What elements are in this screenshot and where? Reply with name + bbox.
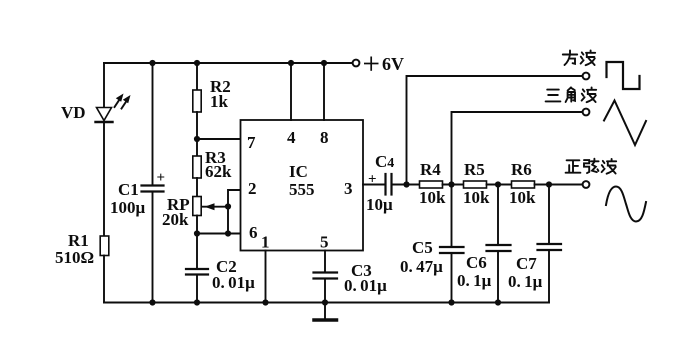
svg-text:10k: 10k bbox=[509, 188, 536, 207]
node top pin4 bbox=[288, 60, 294, 66]
wire left rail lower bbox=[103, 256, 105, 303]
svg-text:0. 01μ: 0. 01μ bbox=[344, 276, 387, 295]
svg-text:C1: C1 bbox=[118, 180, 139, 199]
capacitor C1 bbox=[142, 184, 164, 186]
resistor R6 bbox=[512, 181, 535, 188]
wire C4 to R4 bbox=[392, 184, 420, 186]
wire pin3 bbox=[363, 184, 386, 186]
node wiper bbox=[225, 203, 231, 209]
capacitor C3 bbox=[314, 271, 338, 273]
wire R5 to R6 bbox=[487, 184, 512, 186]
wire R3 to RP bbox=[196, 178, 198, 197]
resistor R4 bbox=[420, 181, 443, 188]
resistor R5 bbox=[464, 181, 487, 188]
op-amp U1 IC 555 box bbox=[241, 120, 364, 251]
node bottom C2 bbox=[194, 299, 200, 305]
wire C1 rail upper bbox=[152, 63, 154, 185]
svg-text:R6: R6 bbox=[511, 160, 532, 179]
resistor R2 bbox=[193, 90, 201, 112]
svg-text:6: 6 bbox=[249, 223, 258, 242]
wire R4 to R5 bbox=[443, 184, 464, 186]
svg-text:0. 01μ: 0. 01μ bbox=[212, 273, 255, 292]
node bottom C6 bbox=[495, 299, 501, 305]
capacitor C2 bbox=[186, 268, 208, 270]
svg-text:1: 1 bbox=[261, 233, 270, 252]
node R6 out bbox=[546, 181, 552, 187]
svg-text:IC: IC bbox=[289, 162, 308, 181]
svg-text:R5: R5 bbox=[464, 160, 485, 179]
svg-text:C4: C4 bbox=[375, 152, 394, 171]
wire R2 to node7 bbox=[196, 112, 198, 156]
label zheng-xian-bo (sine wave, chinese) bbox=[566, 160, 581, 172]
node pin6 bus bbox=[225, 230, 231, 236]
terminal +6V bbox=[353, 60, 360, 67]
potentiometer RP bbox=[193, 197, 201, 216]
wire pin6 bbox=[197, 233, 241, 235]
label fang-bo (square wave, chinese) bbox=[563, 51, 577, 66]
ground bbox=[314, 303, 337, 321]
svg-text:4: 4 bbox=[287, 128, 296, 147]
svg-text:510Ω: 510Ω bbox=[55, 248, 94, 267]
icon sine wave bbox=[606, 187, 646, 222]
wire triangle-wave takeoff bbox=[452, 112, 583, 185]
terminal triangle-wave bbox=[583, 109, 590, 116]
node R4-R5 bbox=[448, 181, 454, 187]
svg-text:7: 7 bbox=[247, 133, 256, 152]
wire RP to pin6 bbox=[196, 216, 198, 270]
wire R6 to sine terminal bbox=[535, 184, 583, 186]
node pin7 bbox=[194, 136, 200, 142]
node bottom pin1 bbox=[262, 299, 268, 305]
wire C1 rail lower bbox=[152, 192, 154, 303]
wire pin1 bbox=[265, 251, 267, 303]
svg-text:8: 8 bbox=[320, 128, 329, 147]
node R5-R6 bbox=[495, 181, 501, 187]
resistor R1 bbox=[100, 236, 109, 256]
svg-text:0. 47μ: 0. 47μ bbox=[400, 257, 443, 276]
svg-text:1k: 1k bbox=[210, 92, 229, 111]
wire top supply rail bbox=[104, 62, 353, 64]
svg-text:555: 555 bbox=[289, 180, 315, 199]
svg-text:+: + bbox=[157, 170, 166, 186]
wire C2 to rail bbox=[196, 275, 198, 303]
capacitor C5 bbox=[440, 185, 464, 303]
node top C1 bbox=[149, 60, 155, 66]
wire wiper bus bbox=[228, 190, 241, 234]
wire pin7 bbox=[197, 138, 241, 140]
label san-jiao-bo (triangle wave, chinese) bbox=[546, 90, 561, 102]
label +6V bbox=[364, 57, 379, 71]
svg-text:0. 1μ: 0. 1μ bbox=[508, 272, 543, 291]
photodiode VD bbox=[96, 94, 131, 123]
capacitor C6 bbox=[487, 185, 511, 303]
wire C3 to rail bbox=[324, 279, 326, 303]
wire R2 rail top bbox=[196, 63, 198, 90]
terminal square-wave bbox=[583, 73, 590, 80]
wire square-wave takeoff bbox=[407, 76, 583, 185]
wire pin5 bbox=[324, 251, 326, 273]
capacitor C4 bbox=[384, 174, 386, 195]
wire bottom ground rail bbox=[104, 302, 549, 304]
resistor R3 bbox=[193, 156, 201, 178]
svg-text:R4: R4 bbox=[420, 160, 441, 179]
svg-text:2: 2 bbox=[248, 179, 257, 198]
node top R2 bbox=[194, 60, 200, 66]
node bottom C1 bbox=[149, 299, 155, 305]
svg-text:6V: 6V bbox=[382, 54, 404, 74]
node pin6 left bbox=[194, 230, 200, 236]
capacitor C7 bbox=[538, 185, 562, 303]
wire left rail upper bbox=[103, 63, 105, 107]
svg-text:0. 1μ: 0. 1μ bbox=[457, 271, 492, 290]
svg-text:VD: VD bbox=[61, 103, 86, 122]
svg-text:10k: 10k bbox=[463, 188, 490, 207]
svg-text:62k: 62k bbox=[205, 162, 232, 181]
node C4 output bbox=[403, 181, 409, 187]
wire pin8 bbox=[323, 63, 325, 120]
icon triangle wave bbox=[604, 101, 646, 146]
svg-text:20k: 20k bbox=[162, 210, 189, 229]
wire pin4 bbox=[290, 63, 292, 120]
terminal sine-wave bbox=[583, 181, 590, 188]
svg-text:C6: C6 bbox=[466, 253, 487, 272]
node bottom C5 bbox=[448, 299, 454, 305]
wire left rail middle bbox=[103, 122, 105, 236]
svg-text:100μ: 100μ bbox=[110, 198, 146, 217]
svg-text:10k: 10k bbox=[419, 188, 446, 207]
node top pin8 bbox=[321, 60, 327, 66]
icon square wave bbox=[607, 62, 640, 89]
svg-text:5: 5 bbox=[320, 233, 329, 252]
node bottom ground bbox=[322, 299, 328, 305]
wiper arrow RP bbox=[202, 203, 228, 210]
svg-text:3: 3 bbox=[344, 179, 353, 198]
svg-text:10μ: 10μ bbox=[366, 195, 393, 214]
svg-text:C7: C7 bbox=[516, 254, 537, 273]
svg-text:C5: C5 bbox=[412, 238, 433, 257]
svg-text:+: + bbox=[368, 172, 377, 188]
